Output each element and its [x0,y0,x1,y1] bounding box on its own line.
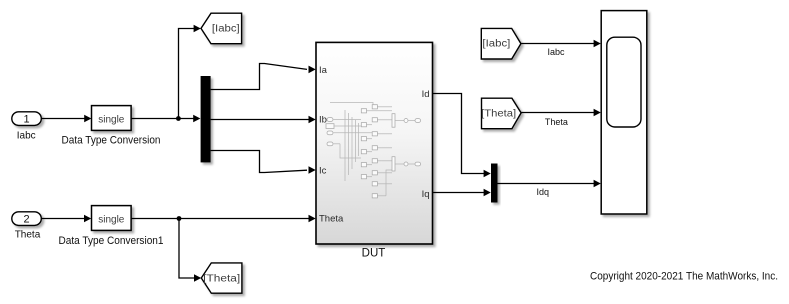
svg-text:Theta: Theta [319,214,344,225]
wire Data Type Conversion to Demux [132,118,195,120]
junction node row1 [176,116,181,121]
wire Demux out2 to DUT Ib [211,119,309,121]
svg-text:[Iabc]: [Iabc] [482,39,510,50]
wire Data Type Conversion1 to DUT Theta [132,218,310,220]
inport 2 [12,212,42,226]
block Data Type Conversion [92,106,132,131]
subsystem DUT [316,42,433,244]
svg-text:Iabc: Iabc [547,47,565,57]
svg-text:Id: Id [422,89,430,100]
svg-text:Ib: Ib [319,115,327,126]
svg-text:DUT: DUT [362,248,386,260]
wire Demux out1 to DUT Ia [211,64,307,90]
junction node row2 [177,216,182,221]
svg-text:Data Type Conversion: Data Type Conversion [62,135,161,147]
svg-text:[Theta]: [Theta] [481,109,516,120]
svg-text:Theta: Theta [15,229,41,240]
svg-text:single: single [98,115,125,126]
Goto [Iabc] [201,13,242,44]
svg-text:[Iabc]: [Iabc] [212,23,240,34]
From [Iabc] [481,28,521,59]
svg-text:single: single [98,214,125,225]
Demux [201,76,211,162]
wire Mux to Scope (Idq) [498,183,595,185]
svg-text:Iabc: Iabc [17,131,36,142]
svg-text:2: 2 [23,214,29,226]
From [Theta] [482,98,522,129]
svg-text:Data Type Conversion1: Data Type Conversion1 [59,235,164,247]
wire From Iabc to Scope [521,43,595,45]
wire branch up to Goto Iabc [179,29,195,119]
wire DUT Iq to Mux [433,192,485,194]
svg-text:Iq: Iq [422,189,430,200]
wire From Theta to Scope [521,112,594,114]
block Data Type Conversion1 [92,206,132,231]
Mux [491,164,498,203]
svg-text:Ia: Ia [319,65,328,76]
wire Demux out3 to DUT Ic [211,151,307,173]
wire DUT Id to Mux [433,94,485,174]
Goto [Theta] [201,263,242,293]
svg-text:[Theta]: [Theta] [203,273,240,284]
wire inport2 to Data Type Conversion1 [42,218,86,220]
svg-text:Ic: Ic [319,165,327,176]
svg-text:1: 1 [23,114,29,126]
DUT preview sketch [330,103,415,196]
inport 1 [12,112,42,126]
Scope screen [607,37,641,127]
svg-text:Copyright 2020-2021 The MathWo: Copyright 2020-2021 The MathWorks, Inc. [590,271,778,283]
Scope [601,11,647,214]
wire branch down to Goto Theta [179,219,195,279]
svg-text:Theta: Theta [545,117,568,127]
svg-text:Idq: Idq [536,187,549,197]
wire inport1 to Data Type Conversion [42,118,86,120]
